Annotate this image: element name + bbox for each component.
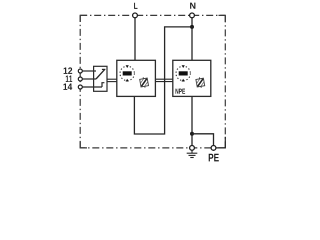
wire: junction to PE terminal [192, 134, 214, 146]
varistor/spark-gap symbol (dashed circle with block), module 2 [176, 65, 190, 81]
mechanical linkage (double line) module 1 to module 2 [155, 79, 172, 81]
terminal 11 [78, 77, 82, 81]
label NPE inside module 2 [176, 89, 186, 94]
terminal N [190, 13, 195, 18]
terminal 14 [78, 85, 82, 89]
wire: N drop from terminal to module 2 top [191, 18, 193, 61]
node: junction dot above ground terminal [190, 132, 194, 136]
wire: L drop from terminal to module 1 top [134, 18, 136, 61]
SPD module 1 box (varistor L-N) [117, 60, 156, 96]
wire: module 1 bottom to N line (L-N varistor return path) [134, 27, 192, 134]
wire: terminal 12 lead [82, 70, 96, 72]
SPD module 2 box (N-PE) [173, 60, 211, 96]
terminal L [133, 13, 138, 18]
ground symbol [187, 150, 198, 157]
contact 14 stub [102, 83, 104, 87]
terminal: ground circle on border [190, 146, 195, 151]
terminal 12 [78, 69, 82, 73]
wire: module 2 bottom down to PE junction [191, 96, 193, 145]
disconnector symbol, module 2 [196, 77, 205, 89]
wire: terminal 11 lead [82, 78, 96, 80]
wire: terminal 14 lead [82, 86, 102, 88]
terminal PE [211, 146, 216, 151]
varistor symbol (dashed circle with block), module 1 [120, 65, 134, 81]
mechanical linkage (double line) switch to module 1 [107, 79, 117, 81]
wire: PE terminal to border corner [216, 137, 225, 148]
disconnector symbol, module 1 [139, 77, 148, 89]
node: junction dot on N line [190, 25, 194, 29]
enclosure boundary (dash-dot border) [80, 15, 225, 148]
border corner strokes [80, 15, 225, 148]
changeover contact FM (remote signalling switch) box [94, 66, 107, 91]
switch blade (11-12 closed) [96, 70, 105, 79]
